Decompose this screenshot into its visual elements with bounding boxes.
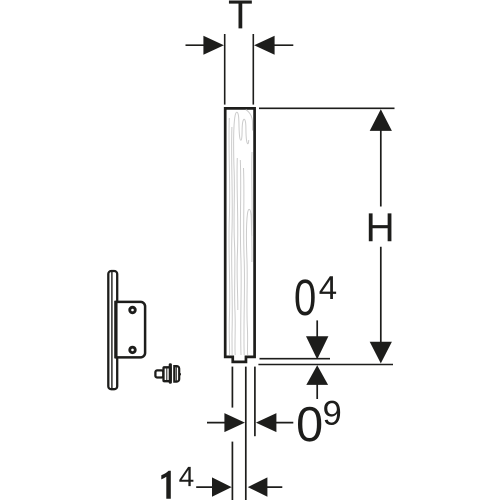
extension line right (panel right edge, T dim) — [252, 34, 254, 105]
mounting bracket junction edge — [114, 301, 118, 359]
extension line below tab left edge (1.4 dim, upper segment) — [231, 367, 233, 408]
wall rail plate (side view) — [108, 271, 117, 389]
label T — [229, 1, 252, 29]
1.4 dimension right arrow — [248, 477, 282, 496]
fixing screw fitting — [155, 363, 180, 383]
extension line from tab bottom edge (H and 0.4 dim) — [258, 364, 393, 366]
H dimension line upper segment — [380, 130, 382, 207]
T dimension right arrow — [254, 36, 293, 55]
0.4 dimension down arrow — [306, 320, 328, 359]
extension line below tab right edge — [245, 367, 247, 500]
mounting bracket plate — [116, 302, 145, 357]
label superscript 9 (of 0.9) — [324, 401, 340, 425]
0.4 dimension up arrow — [306, 365, 328, 399]
H dimension line lower segment — [380, 247, 382, 343]
0.9 dimension right arrow — [256, 413, 293, 432]
extension line below panel right edge — [254, 367, 256, 437]
0.9 dimension left arrow — [207, 413, 245, 432]
label 0 (of 0.4) — [295, 279, 314, 315]
bracket screw hole bottom — [130, 347, 136, 353]
label superscript 4 (of 0.4) — [319, 276, 336, 299]
label 0 (of 0.9) — [298, 407, 321, 442]
label superscript 4 (of 1.4) — [179, 467, 193, 486]
label 1 (of 1.4) — [161, 471, 171, 499]
T dimension left arrow — [186, 36, 224, 55]
extension line from panel bottom edge (0.4 dim) — [260, 358, 331, 360]
panel (side view with bottom tab) — [225, 108, 254, 362]
extension line below tab left edge (1.4 dim, lower segment) — [231, 442, 233, 500]
1.4 dimension left arrow — [196, 477, 231, 496]
wood grain — [229, 110, 253, 355]
bracket screw hole top — [130, 307, 136, 313]
extension line left (panel left edge, T dim) — [224, 34, 226, 105]
label H — [369, 213, 392, 241]
wall rail inner line — [111, 272, 113, 389]
H dimension up arrow — [370, 109, 392, 131]
H dimension down arrow — [370, 342, 392, 364]
extension line from panel top (H dim) — [259, 107, 395, 109]
